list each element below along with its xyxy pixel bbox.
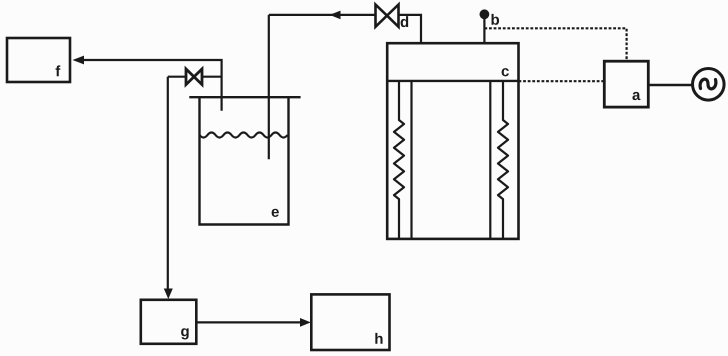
wire from drain valve down to box g [167, 77, 169, 290]
AC sine symbol [700, 79, 716, 89]
label g [181, 328, 189, 339]
liquid surface wavy line [200, 133, 288, 138]
arrowhead into box g [164, 289, 173, 300]
probe b stem [483, 16, 485, 43]
reactor c outer body [387, 43, 518, 239]
drain valve (bowtie) [186, 69, 202, 85]
arrowhead on top wire [330, 11, 341, 20]
label b [491, 14, 499, 25]
left inner electrode (straight) [410, 81, 412, 239]
dip tube into vessel (to reactor line) [268, 15, 270, 159]
wire from vessel e dip tube to box f [83, 60, 222, 111]
vessel e walls and bottom [200, 97, 289, 224]
right inner electrode (straight) [489, 81, 491, 239]
label a [632, 92, 640, 100]
left electrode with heating zigzag [394, 81, 404, 239]
box g [141, 300, 197, 344]
wire through drain valve [168, 76, 222, 78]
probe b bulb [480, 9, 490, 19]
right electrode with heating zigzag [498, 81, 508, 239]
reactor flange line [387, 80, 518, 82]
arrowhead into box h [300, 318, 311, 327]
label e [272, 209, 279, 217]
label f [56, 65, 61, 76]
label d [401, 16, 409, 27]
box h [311, 294, 389, 350]
dotted signal wire from probe b to box a [484, 28, 626, 61]
wire from box g to box h [196, 321, 301, 323]
label c [502, 68, 509, 76]
arrowhead into box f [73, 56, 85, 65]
wire from box a to AC source [648, 84, 692, 87]
AC source circle [693, 69, 725, 101]
vessel e rim [189, 96, 300, 98]
box a [604, 61, 648, 107]
dotted signal wire from reactor c to box a [519, 80, 605, 82]
box f [7, 38, 70, 82]
valve d (bowtie) [376, 5, 399, 27]
wire from valve d down to reactor top [399, 15, 422, 43]
label h [375, 333, 382, 344]
top wire from reactor/valve d to vessel e [269, 14, 376, 16]
